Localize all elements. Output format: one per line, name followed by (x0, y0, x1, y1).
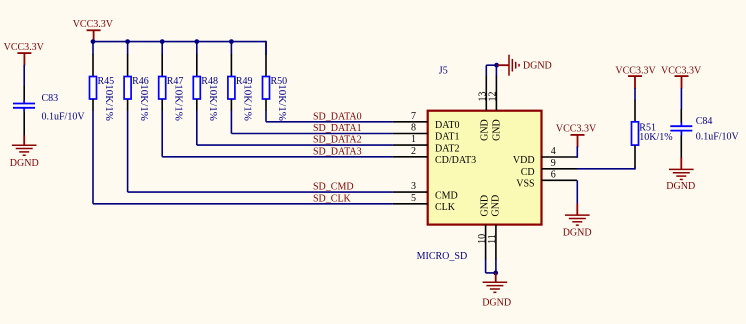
pin 2 of C84 (680, 135, 682, 158)
value 10K/1% (R46) (138, 84, 150, 121)
capacitor C83 (13, 93, 58, 112)
pin 12 (GND) (488, 76, 503, 141)
net label SD_DATA3 (313, 146, 362, 157)
wire net SD_DATA1 (231, 133, 393, 135)
pin 4 (VDD) (513, 146, 577, 166)
pin 1 of R50 (265, 54, 267, 77)
wire net SD_CMD (128, 191, 393, 193)
connector J5 body (428, 111, 542, 225)
junction (160, 39, 165, 44)
wire (486, 65, 496, 76)
designator J5 (439, 65, 448, 76)
svg-text:SD_DATA3: SD_DATA3 (313, 146, 362, 157)
svg-text:10K/1%: 10K/1% (207, 84, 219, 121)
svg-text:SD_DATA1: SD_DATA1 (313, 123, 362, 134)
net label SD_DATA2 (313, 135, 362, 146)
svg-text:CLK: CLK (435, 202, 456, 213)
junction (494, 63, 499, 68)
junction (194, 39, 199, 44)
svg-text:10K/1%: 10K/1% (138, 84, 150, 121)
svg-text:VCC3.3V: VCC3.3V (615, 65, 656, 76)
value 10K/1% (R49) (242, 84, 254, 121)
pin 2 of R51 (634, 145, 636, 167)
pin 2 of C83 (23, 111, 25, 136)
resistor R47 (159, 76, 184, 99)
pin 1 (DAT2) (393, 134, 460, 154)
wire (127, 42, 129, 55)
pin 11 (GND) (487, 195, 501, 260)
svg-text:VCC3.3V: VCC3.3V (661, 65, 702, 76)
svg-text:GND: GND (480, 119, 491, 141)
svg-text:1: 1 (411, 134, 416, 145)
pin 1 of R47 (161, 54, 163, 77)
wire net SD_DATA3 (162, 156, 393, 158)
svg-text:12: 12 (488, 92, 499, 102)
pin 1 of C84 (680, 109, 682, 123)
pin 2 of R47 (161, 99, 163, 111)
svg-text:DAT0: DAT0 (435, 120, 459, 131)
resistor R45 (90, 76, 115, 99)
pin 2 (CD/DAT3) (393, 146, 476, 166)
pin 2 of R48 (196, 99, 198, 111)
svg-text:SD_CMD: SD_CMD (313, 182, 354, 193)
svg-text:2: 2 (411, 146, 416, 157)
pin 2 of R45 (92, 99, 94, 111)
svg-text:8: 8 (411, 123, 416, 134)
pin 9 (CD) (521, 158, 577, 178)
svg-text:GND: GND (491, 119, 502, 141)
svg-text:DGND: DGND (563, 228, 592, 239)
junction (125, 39, 130, 44)
power flag VCC3.3V (C83 branch) (4, 42, 45, 66)
resistor R48 (193, 76, 218, 99)
value 10K/1% (R45) (103, 84, 115, 121)
comment MICRO_SD (417, 251, 468, 262)
pin 8 (DAT1) (393, 123, 460, 143)
pin 1 of C83 (23, 86, 25, 101)
pin 1 of R48 (196, 54, 198, 77)
svg-text:6: 6 (551, 169, 556, 180)
svg-text:VCC3.3V: VCC3.3V (556, 124, 597, 135)
value 10K/1% (R48) (207, 84, 219, 121)
pin 1 of R45 (92, 54, 94, 77)
pin 5 (CLK) (393, 193, 456, 213)
svg-text:CD/DAT3: CD/DAT3 (435, 155, 476, 166)
ground DGND (top) (498, 55, 552, 76)
pin 2 of R46 (127, 99, 129, 111)
wire (92, 110, 94, 204)
svg-text:CMD: CMD (435, 190, 458, 201)
pin 10 (GND) (477, 195, 491, 260)
svg-text:9: 9 (551, 158, 556, 169)
resistor R51 (632, 122, 656, 145)
net label SD_DATA1 (313, 123, 362, 134)
svg-text:GND: GND (480, 195, 491, 217)
svg-text:4: 4 (551, 146, 556, 157)
junction (229, 39, 234, 44)
wire (161, 110, 163, 157)
wire (495, 259, 497, 273)
svg-text:GND: GND (491, 195, 502, 217)
wire (680, 88, 682, 110)
wire (196, 110, 198, 145)
wire (196, 42, 198, 55)
svg-text:DAT2: DAT2 (435, 143, 459, 154)
wire (92, 42, 94, 55)
power flag VCC3.3V (C84) (661, 65, 702, 88)
net label SD_CMD (313, 182, 354, 193)
wire (265, 42, 267, 55)
svg-text:DAT1: DAT1 (435, 132, 459, 143)
wire (230, 110, 232, 133)
svg-text:CD: CD (521, 167, 535, 178)
svg-text:0.1uF/10V: 0.1uF/10V (696, 131, 740, 142)
wire (230, 42, 232, 55)
svg-text:10K/1%: 10K/1% (172, 84, 184, 121)
wire (161, 42, 163, 55)
svg-text:VCC3.3V: VCC3.3V (73, 19, 114, 30)
svg-text:DGND: DGND (482, 298, 511, 309)
resistor R50 (263, 76, 288, 99)
value 10K/1% (R50) (276, 84, 288, 121)
wire (127, 110, 129, 192)
resistor R46 (124, 76, 149, 99)
wire (23, 65, 25, 87)
wire (576, 146, 578, 158)
pin 2 of R50 (265, 99, 267, 111)
pin 13 (GND) (478, 76, 491, 141)
wire net CD (577, 167, 635, 170)
pin 1 of R49 (230, 54, 232, 77)
svg-text:10K/1%: 10K/1% (242, 84, 254, 121)
junction (91, 39, 96, 44)
svg-text:DGND: DGND (523, 61, 552, 72)
value 10K/1% (R47) (172, 84, 184, 121)
net label SD_DATA0 (313, 111, 362, 122)
value 10K/1% (R51) (639, 132, 672, 143)
power flag VCC3.3V (pull-up rail) (73, 19, 114, 41)
svg-text:VSS: VSS (516, 179, 534, 190)
svg-text:7: 7 (411, 111, 416, 122)
capacitor C84 (670, 116, 712, 136)
svg-text:DGND: DGND (10, 158, 39, 169)
pin 3 (CMD) (393, 181, 458, 201)
svg-text:C84: C84 (696, 116, 713, 127)
svg-text:VDD: VDD (513, 155, 535, 166)
svg-text:DGND: DGND (666, 181, 695, 192)
svg-text:11: 11 (487, 234, 498, 244)
junction (493, 271, 498, 276)
pin 7 (DAT0) (393, 111, 460, 131)
power flag VCC3.3V (VDD) (556, 124, 597, 148)
net label SD_CLK (313, 193, 352, 204)
pin 6 (VSS) (516, 169, 577, 189)
svg-text:SD_CLK: SD_CLK (313, 193, 352, 204)
wire pull-up rail (93, 41, 266, 55)
wire (495, 65, 497, 76)
svg-text:C83: C83 (42, 93, 59, 104)
svg-text:J5: J5 (439, 65, 448, 76)
resistor R49 (228, 76, 253, 99)
wire (634, 88, 636, 100)
pin 2 of R49 (230, 99, 232, 111)
svg-text:10K/1%: 10K/1% (276, 84, 288, 121)
svg-text:5: 5 (411, 193, 416, 204)
svg-text:VCC3.3V: VCC3.3V (4, 42, 45, 53)
svg-text:10K/1%: 10K/1% (639, 132, 672, 143)
ground DGND (C83) (10, 136, 39, 170)
svg-text:10K/1%: 10K/1% (103, 84, 115, 121)
wire (265, 110, 267, 122)
wire (486, 259, 496, 273)
ground DGND (C84) (666, 158, 695, 192)
wire net SD_CLK (93, 203, 393, 205)
ground DGND (VSS) (563, 204, 592, 239)
ground DGND (bottom) (482, 273, 511, 309)
value 0.1uF/10V (C84) (696, 131, 740, 142)
wire net SD_DATA2 (197, 144, 393, 146)
svg-text:3: 3 (411, 181, 416, 192)
svg-text:MICRO_SD: MICRO_SD (417, 251, 468, 262)
pin 1 of R51 (634, 100, 636, 122)
power flag VCC3.3V (R51) (615, 65, 656, 88)
svg-text:SD_DATA2: SD_DATA2 (313, 135, 362, 146)
pin 1 of R46 (127, 54, 129, 77)
wire net SD_DATA0 (266, 121, 393, 123)
wire (576, 180, 578, 204)
value 0.1uF/10V (C83) (42, 112, 86, 123)
svg-text:0.1uF/10V: 0.1uF/10V (42, 112, 86, 123)
svg-text:SD_DATA0: SD_DATA0 (313, 111, 362, 122)
